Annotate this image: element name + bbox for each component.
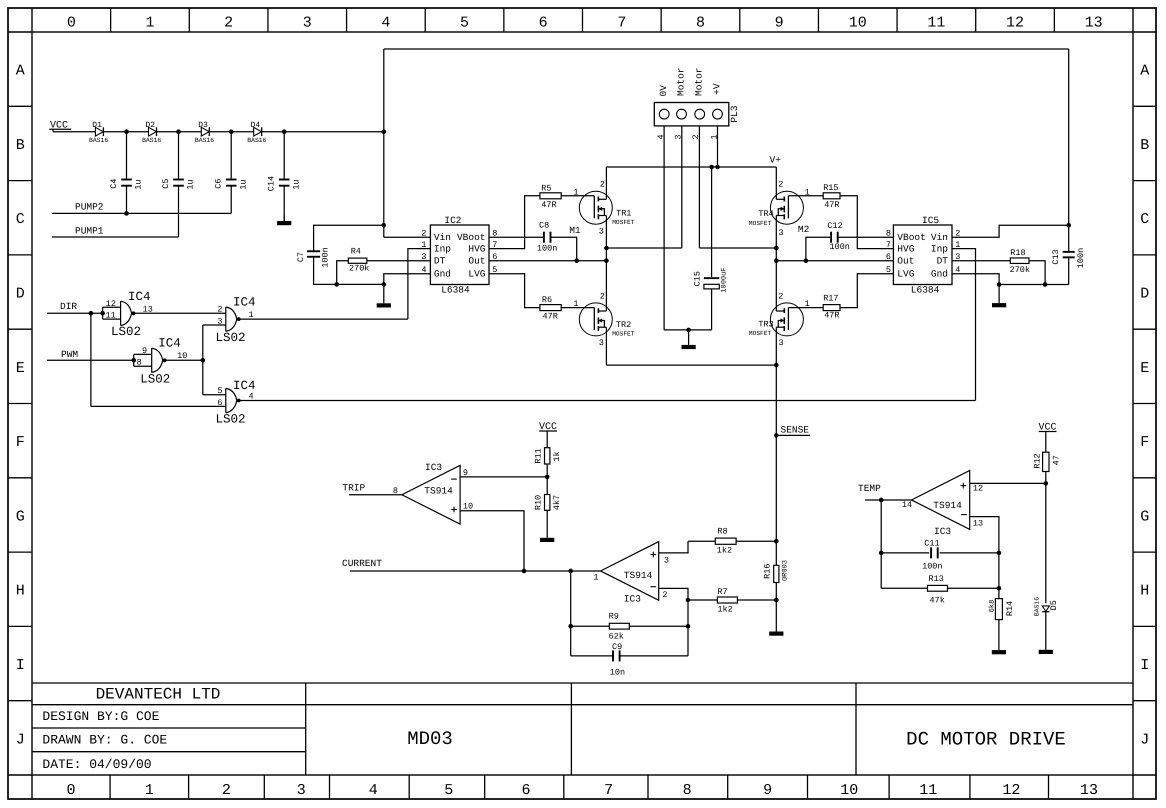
svg-text:1: 1 [593,572,598,582]
svg-text:4: 4 [249,391,254,401]
svg-text:1: 1 [805,299,810,309]
svg-text:C: C [1140,211,1149,228]
svg-text:R18: R18 [1010,248,1025,258]
svg-text:R8: R8 [717,527,727,537]
svg-text:DIR: DIR [60,301,77,312]
svg-text:14: 14 [902,500,912,510]
svg-text:3: 3 [599,226,604,236]
svg-text:2: 2 [778,291,783,301]
svg-text:2: 2 [600,180,605,190]
svg-text:IC4: IC4 [233,295,256,309]
svg-text:+V: +V [711,83,722,95]
svg-text:2: 2 [778,180,783,190]
svg-text:TS914: TS914 [624,570,653,581]
svg-text:R17: R17 [823,294,838,304]
svg-text:G: G [1140,508,1149,525]
svg-text:6: 6 [217,398,222,408]
svg-text:TR3: TR3 [758,320,773,330]
svg-text:R5: R5 [541,183,551,193]
svg-text:10: 10 [177,351,187,361]
svg-text:62k: 62k [609,631,624,641]
svg-text:M2: M2 [798,224,810,235]
svg-text:47R: 47R [824,311,839,321]
svg-text:DT: DT [434,256,446,267]
svg-text:1000uF: 1000uF [721,267,729,292]
svg-text:R9: R9 [609,612,619,622]
svg-text:HVG: HVG [468,243,485,254]
svg-text:9: 9 [775,15,784,32]
svg-text:VBoot: VBoot [457,232,486,243]
svg-text:J: J [1140,731,1149,748]
svg-text:270k: 270k [349,263,369,273]
svg-text:7: 7 [886,240,891,250]
svg-text:VCC: VCC [50,120,68,131]
svg-text:R10: R10 [534,495,544,510]
svg-text:MOSFET: MOSFET [612,219,635,226]
svg-text:LS02: LS02 [216,413,246,427]
svg-text:R12: R12 [1033,453,1043,468]
svg-text:D: D [1140,285,1149,302]
svg-text:1: 1 [145,782,154,799]
svg-text:2: 2 [217,305,222,315]
svg-text:11: 11 [106,310,116,320]
svg-text:DESIGN BY:G COE: DESIGN BY:G COE [42,709,159,724]
svg-text:TEMP: TEMP [858,483,881,494]
svg-text:TR2: TR2 [616,320,631,330]
svg-text:M1: M1 [569,225,581,236]
svg-text:D3: D3 [198,121,208,130]
svg-text:5: 5 [886,265,891,275]
svg-text:PUMP2: PUMP2 [75,201,104,212]
svg-text:1: 1 [709,134,719,139]
svg-text:100n: 100n [321,247,331,267]
svg-text:4: 4 [656,134,666,139]
svg-text:R14: R14 [1005,601,1015,616]
svg-text:3: 3 [599,338,604,348]
svg-text:H: H [1140,583,1149,600]
svg-text:DEVANTECH LTD: DEVANTECH LTD [96,686,221,704]
svg-text:DC MOTOR DRIVE: DC MOTOR DRIVE [906,729,1066,751]
svg-text:5: 5 [217,386,222,396]
svg-text:MOSFET: MOSFET [612,331,635,338]
svg-text:H: H [16,583,25,600]
svg-text:DT: DT [937,256,949,267]
svg-text:1: 1 [421,240,426,250]
svg-text:L6384: L6384 [441,285,470,296]
svg-text:4k7: 4k7 [552,495,562,510]
svg-text:1k2: 1k2 [717,604,732,614]
svg-text:11: 11 [927,15,945,32]
svg-text:1: 1 [145,15,154,32]
svg-text:MD03: MD03 [407,728,453,750]
svg-text:LS02: LS02 [216,331,246,345]
svg-text:12: 12 [106,299,116,309]
svg-text:D: D [16,285,25,302]
svg-text:5: 5 [492,265,497,275]
svg-text:13: 13 [973,518,983,528]
svg-text:IC2: IC2 [444,215,461,226]
svg-text:9: 9 [142,346,147,356]
svg-text:I: I [16,657,25,674]
svg-text:8: 8 [683,782,692,799]
svg-text:MOSFET: MOSFET [749,330,772,337]
svg-text:DATE: 04/09/00: DATE: 04/09/00 [42,757,151,772]
svg-text:IC4: IC4 [128,290,151,304]
svg-text:5: 5 [444,782,453,799]
svg-text:2: 2 [662,590,667,600]
svg-text:3: 3 [955,252,960,262]
svg-text:G: G [16,508,25,525]
svg-text:IC4: IC4 [158,337,181,351]
svg-text:47k: 47k [930,595,945,605]
svg-text:1k: 1k [552,451,562,461]
svg-text:A: A [16,63,25,80]
svg-text:IC3: IC3 [934,526,951,537]
svg-text:12: 12 [973,483,983,493]
svg-text:PWM: PWM [61,349,78,360]
svg-text:4: 4 [369,782,378,799]
svg-text:1: 1 [249,310,254,320]
svg-text:LS02: LS02 [111,325,141,339]
svg-text:TR4: TR4 [758,209,773,219]
svg-text:2: 2 [421,229,426,239]
svg-text:9: 9 [463,468,468,478]
svg-text:B: B [1140,137,1149,154]
svg-text:47R: 47R [824,200,839,210]
svg-text:3: 3 [779,338,784,348]
svg-text:3: 3 [779,228,784,238]
svg-text:10n: 10n [610,667,625,677]
svg-text:PL3: PL3 [729,105,740,122]
svg-text:BAS16: BAS16 [142,137,161,144]
svg-text:Inp: Inp [931,243,948,254]
svg-text:270k: 270k [1010,265,1030,275]
svg-text:3: 3 [217,316,222,326]
svg-text:1u: 1u [134,179,144,189]
svg-text:C14: C14 [267,176,277,191]
svg-text:Gnd: Gnd [434,269,451,280]
svg-text:7: 7 [617,15,626,32]
svg-text:Gnd: Gnd [931,269,948,280]
svg-text:5: 5 [460,15,469,32]
svg-text:2: 2 [955,229,960,239]
svg-text:100n: 100n [922,561,942,571]
svg-text:R15: R15 [823,183,838,193]
svg-text:4: 4 [381,15,390,32]
svg-text:TR1: TR1 [616,208,631,218]
svg-text:Vin: Vin [434,232,451,243]
svg-text:J: J [16,731,25,748]
svg-text:13: 13 [1085,15,1103,32]
svg-text:C6: C6 [214,178,224,188]
svg-text:BAS16: BAS16 [195,137,214,144]
svg-text:4: 4 [955,265,960,275]
svg-text:F: F [1140,434,1149,451]
svg-text:C15: C15 [692,271,702,286]
svg-text:LVG: LVG [897,269,914,280]
svg-text:1u: 1u [291,179,301,189]
svg-text:LS02: LS02 [140,372,170,386]
svg-text:8: 8 [137,357,142,367]
svg-text:6k8: 6k8 [988,600,997,613]
svg-text:Out: Out [897,256,914,267]
svg-text:100n: 100n [537,244,557,254]
svg-text:DRAWN BY: G. COE: DRAWN BY: G. COE [42,733,167,748]
svg-text:2: 2 [222,782,231,799]
svg-text:3: 3 [303,15,312,32]
svg-text:10: 10 [463,502,473,512]
svg-text:8: 8 [492,229,497,239]
svg-text:D4: D4 [251,121,261,130]
svg-text:3: 3 [297,782,306,799]
svg-text:IC5: IC5 [922,215,939,226]
svg-text:I: I [1140,657,1149,674]
svg-text:0: 0 [67,15,76,32]
svg-text:8: 8 [393,486,398,496]
svg-text:1: 1 [955,240,960,250]
svg-text:0V: 0V [658,85,669,97]
svg-text:C13: C13 [1051,249,1061,264]
svg-text:HVG: HVG [897,243,914,254]
svg-text:100n: 100n [830,242,850,252]
svg-text:PUMP1: PUMP1 [75,225,104,236]
svg-text:C5: C5 [161,178,171,188]
svg-text:R4: R4 [351,247,361,257]
svg-text:1k2: 1k2 [717,546,732,556]
svg-text:A: A [1140,63,1149,80]
svg-text:CURRENT: CURRENT [342,558,382,569]
svg-text:C9: C9 [612,642,622,652]
svg-text:0R003: 0R003 [782,560,790,581]
svg-text:8: 8 [696,15,705,32]
svg-text:TS914: TS914 [424,485,453,496]
svg-text:BAS16: BAS16 [89,137,108,144]
svg-text:LVG: LVG [468,269,485,280]
svg-text:Out: Out [468,256,485,267]
svg-text:C: C [16,211,25,228]
svg-text:R11: R11 [534,448,544,463]
svg-text:6: 6 [539,15,548,32]
svg-text:0: 0 [66,782,75,799]
svg-text:SENSE: SENSE [781,425,810,436]
svg-text:R6: R6 [542,295,552,305]
svg-text:VCC: VCC [539,422,557,433]
svg-text:Motor: Motor [694,67,705,96]
svg-text:IC3: IC3 [425,462,442,473]
svg-text:Motor: Motor [675,67,686,96]
svg-text:47R: 47R [543,312,558,322]
svg-text:E: E [1140,360,1149,377]
svg-text:10: 10 [840,782,858,799]
svg-text:Vin: Vin [931,232,948,243]
svg-text:IC3: IC3 [624,594,641,605]
svg-text:C8: C8 [539,220,549,230]
svg-text:BAS16: BAS16 [1033,597,1040,616]
svg-text:C12: C12 [827,221,842,231]
svg-text:6: 6 [886,252,891,262]
svg-text:L6384: L6384 [911,285,940,296]
svg-text:47: 47 [1051,455,1061,465]
svg-text:10: 10 [849,15,867,32]
svg-text:100n: 100n [1076,248,1086,268]
svg-text:TS914: TS914 [933,500,962,511]
svg-text:3: 3 [674,134,684,139]
svg-text:11: 11 [919,782,937,799]
svg-text:3: 3 [664,555,669,565]
svg-text:C7: C7 [296,252,306,262]
svg-text:E: E [16,360,25,377]
svg-text:VCC: VCC [1039,422,1057,433]
svg-text:MOSFET: MOSFET [749,220,772,227]
svg-text:F: F [16,434,25,451]
svg-text:8: 8 [886,229,891,239]
svg-text:1: 1 [573,299,578,309]
svg-text:2: 2 [224,15,233,32]
svg-text:C11: C11 [924,539,939,549]
svg-text:6: 6 [521,782,530,799]
svg-text:7: 7 [604,782,613,799]
svg-text:2: 2 [600,291,605,301]
svg-text:D1: D1 [92,121,102,130]
svg-text:13: 13 [1080,782,1098,799]
svg-text:3: 3 [421,252,426,262]
svg-text:13: 13 [143,304,153,314]
svg-text:R13: R13 [929,574,944,584]
svg-text:2: 2 [691,134,701,139]
svg-text:C4: C4 [109,178,119,188]
svg-text:D5: D5 [1049,600,1059,610]
svg-text:47R: 47R [541,200,556,210]
svg-text:12: 12 [1002,782,1020,799]
svg-text:BAS16: BAS16 [247,137,266,144]
svg-text:B: B [16,137,25,154]
svg-text:Inp: Inp [434,243,451,254]
svg-text:V+: V+ [770,154,782,165]
svg-text:D2: D2 [145,121,155,130]
svg-text:R16: R16 [763,564,773,579]
svg-text:7: 7 [492,240,497,250]
svg-text:1u: 1u [238,179,248,189]
svg-text:1: 1 [573,187,578,197]
svg-text:R7: R7 [717,587,727,597]
svg-text:9: 9 [763,782,772,799]
svg-text:12: 12 [1006,15,1024,32]
svg-text:1u: 1u [186,179,196,189]
svg-text:TRIP: TRIP [342,482,365,493]
svg-text:VBoot: VBoot [897,232,926,243]
svg-text:4: 4 [421,265,426,275]
svg-text:6: 6 [492,252,497,262]
svg-text:1: 1 [805,187,810,197]
